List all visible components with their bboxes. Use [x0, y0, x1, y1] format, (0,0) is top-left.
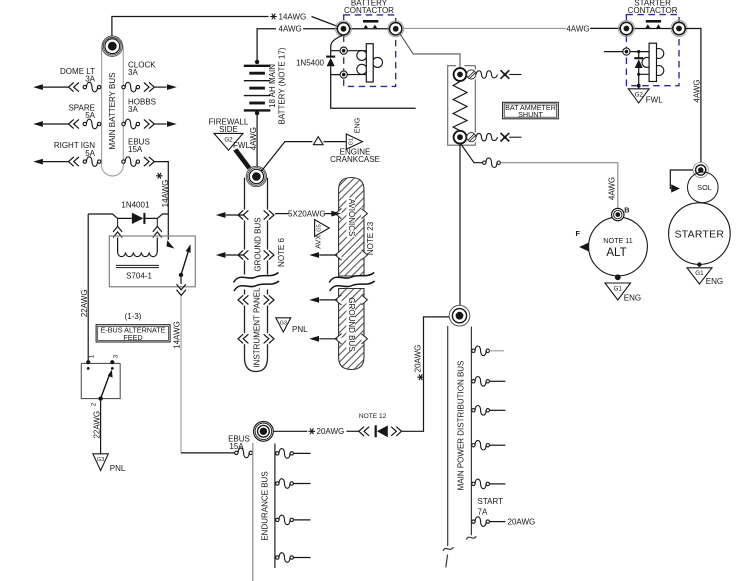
svg-text:NOTE 23: NOTE 23	[366, 221, 375, 255]
E-BUS ALTERNATE FEED label box	[96, 325, 170, 342]
SOL circle	[688, 172, 719, 203]
wire 22AWG relay feed down to switch	[87, 214, 89, 361]
svg-text:G3: G3	[280, 320, 287, 326]
wire contactor to shunt	[399, 32, 460, 68]
BAT AMMETER SHUNT label box	[503, 102, 559, 119]
wire diode to main power bus	[402, 317, 450, 431]
fuse EBUS 15A (alternate feed)	[235, 448, 253, 458]
relay box S704-1	[109, 236, 195, 287]
coil terminals on box edge	[340, 47, 366, 78]
wire 4AWG contactor to starter contactor	[402, 27, 566, 29]
shunt top screw	[467, 70, 476, 79]
svg-text:3A: 3A	[128, 105, 138, 114]
wire shunt to alternator B lead with fuse	[461, 145, 618, 209]
fuse DOME LT 3A	[33, 67, 101, 92]
wire from switch feed to relay coil	[88, 214, 168, 218]
svg-text:PNL: PNL	[110, 464, 126, 473]
svg-text:22AWG: 22AWG	[93, 411, 102, 439]
switch terminals	[86, 360, 90, 364]
switch body	[81, 363, 120, 398]
ground symbol G2 FWL under starter contactor	[628, 89, 649, 103]
avionics bus upper (hatched)	[339, 178, 364, 277]
shunt sense leads bottom	[476, 133, 522, 142]
main power bus top terminal	[449, 305, 470, 326]
svg-text:S704-1: S704-1	[126, 272, 152, 281]
svg-text:(1-3): (1-3)	[125, 312, 142, 321]
svg-text:4AWG: 4AWG	[566, 24, 589, 33]
endurance bus fuses right	[276, 449, 311, 563]
svg-text:3A: 3A	[85, 74, 95, 83]
svg-text:2: 2	[91, 402, 98, 406]
wire shunt to main power distribution bus	[459, 144, 461, 306]
main power bus fuses right	[472, 346, 506, 526]
svg-text:1N5400: 1N5400	[296, 58, 325, 67]
starter contactor dashed box	[626, 15, 679, 86]
ground symbol G5 AVX (avionics)	[315, 220, 330, 237]
wire between contactor terminals	[349, 28, 390, 30]
battery contactor left terminal	[336, 21, 352, 37]
battery 18AH (plates)	[244, 60, 271, 116]
battery contactor coil	[357, 44, 383, 82]
svg-text:GROUND BUS: GROUND BUS	[254, 217, 263, 271]
endurance bus top terminal	[254, 421, 274, 441]
svg-text:4AWG: 4AWG	[249, 127, 258, 150]
wire between terminals	[632, 28, 673, 30]
battery contactor dashed box	[344, 15, 396, 87]
coil small terminal + stub wire	[604, 48, 649, 55]
svg-text:FWL: FWL	[646, 96, 663, 105]
starter contactor left terminal	[618, 21, 634, 37]
main battery bus top terminal	[102, 36, 122, 56]
fuse SPARE 5A	[33, 104, 101, 129]
wire starter contactor to SOL	[686, 29, 701, 163]
ground symbol G2 firewall side	[209, 117, 253, 171]
ground bus body lower (instrument panel)	[245, 290, 268, 372]
fuse HOBBS 3A	[122, 98, 177, 129]
ground bus body upper	[245, 166, 268, 372]
svg-text:G2: G2	[635, 91, 644, 98]
svg-text:3A: 3A	[128, 68, 138, 77]
ground symbol G3 PNL below switch	[93, 454, 108, 471]
svg-text:STARTER: STARTER	[675, 230, 725, 241]
starter ground dot	[697, 262, 701, 266]
svg-text:PNL: PNL	[292, 325, 308, 334]
svg-text:MAIN POWER DISTRIBUTION BUS: MAIN POWER DISTRIBUTION BUS	[456, 361, 465, 491]
svg-text:FWL: FWL	[233, 141, 250, 150]
diode (NOTE 12)	[375, 425, 377, 437]
svg-text:ENG: ENG	[624, 293, 641, 302]
wire EBUS feed down to S704 relay contact	[154, 162, 168, 240]
svg-text:NOTE 12: NOTE 12	[359, 413, 387, 420]
svg-text:15A: 15A	[128, 145, 143, 154]
relay output faston (down chevrons)	[177, 277, 186, 295]
svg-text:14AWG: 14AWG	[173, 321, 182, 349]
svg-text:G1: G1	[614, 285, 623, 292]
fuse RIGHT IGN 5A	[33, 141, 101, 166]
alternator circle	[589, 217, 648, 276]
shunt bottom terminal	[454, 131, 467, 144]
terminal B	[612, 208, 624, 220]
svg-text:20AWG: 20AWG	[317, 427, 345, 436]
main battery bus body	[102, 38, 124, 176]
svg-text:7A: 7A	[478, 507, 488, 516]
svg-text:22AWG: 22AWG	[80, 289, 89, 317]
svg-text:FEED: FEED	[123, 333, 142, 342]
svg-text:G1: G1	[349, 138, 355, 145]
contact bar	[646, 20, 661, 23]
svg-text:20AWG: 20AWG	[414, 345, 423, 373]
main power bus body	[443, 326, 476, 568]
svg-text:NOTE 6: NOTE 6	[277, 238, 286, 267]
fuse CLOCK 3A	[122, 60, 177, 91]
svg-text:ENG: ENG	[353, 117, 362, 133]
diode in starter contactor	[634, 50, 649, 89]
diode 1N4001	[143, 213, 145, 224]
svg-text:1: 1	[89, 354, 96, 358]
inline connector triangle	[313, 137, 323, 145]
svg-text:4AWG: 4AWG	[279, 25, 302, 34]
wire 22AWG switch to panel ground	[100, 401, 102, 454]
wire battery to ground bus	[256, 113, 258, 166]
svg-text:NOTE 11: NOTE 11	[603, 236, 632, 245]
ground symbol G1 ENG under starter	[687, 268, 712, 284]
svg-text:15A: 15A	[229, 442, 244, 451]
wire endurance bus to diode	[274, 430, 308, 432]
svg-text:G3: G3	[97, 457, 104, 463]
svg-text:5A: 5A	[85, 111, 95, 120]
svg-text:ENG: ENG	[706, 277, 723, 286]
svg-text:AVIONICS: AVIONICS	[347, 199, 356, 237]
contact bar	[363, 20, 378, 23]
fuse EBUS 15A	[122, 137, 155, 166]
avionics bus notches (white wedges + chevrons)	[334, 207, 370, 220]
svg-text:MAIN BATTERY BUS: MAIN BATTERY BUS	[108, 73, 117, 150]
svg-text:F: F	[576, 229, 581, 238]
wire alternate feed to endurance bus	[181, 452, 235, 454]
battery contactor right terminal	[388, 21, 404, 37]
switch lever	[101, 374, 110, 399]
ground bus left arrows	[216, 210, 274, 219]
svg-text:14AWG: 14AWG	[161, 180, 170, 208]
wire 4AWG battery to contactor	[257, 29, 338, 61]
avionics bus vertical labels	[346, 198, 355, 238]
svg-text:18 AH MAIN: 18 AH MAIN	[268, 64, 277, 108]
shunt top terminal	[454, 68, 467, 81]
svg-text:3: 3	[113, 354, 120, 358]
avionics left arrows	[309, 252, 337, 258]
svg-text:B: B	[624, 205, 629, 214]
svg-text:SOL: SOL	[697, 183, 711, 192]
solenoid feed arrow	[670, 170, 693, 189]
starter contactor coil	[642, 43, 664, 81]
wire relay to endurance bus (14AWG)	[180, 296, 182, 453]
starter motor circle	[669, 203, 731, 265]
svg-text:ENDURANCE BUS: ENDURANCE BUS	[260, 471, 269, 540]
svg-text:1N4001: 1N4001	[121, 201, 150, 210]
wire ground bus to engine crankcase	[261, 142, 346, 172]
svg-text:G2: G2	[224, 137, 233, 144]
solenoid terminal	[693, 162, 708, 177]
wire 5X20AWG ground bus to avionics	[275, 210, 341, 219]
ground symbol G3 PNL (panel)	[276, 318, 291, 332]
alternator ground dot	[615, 274, 621, 280]
svg-text:GROUND BUS: GROUND BUS	[347, 297, 356, 351]
relay switch lever	[181, 249, 189, 275]
svg-text:5X20AWG: 5X20AWG	[288, 210, 326, 219]
svg-text:G1: G1	[695, 270, 704, 277]
svg-text:4AWG: 4AWG	[608, 177, 617, 200]
endurance bus body	[253, 443, 275, 581]
break squiggle on ground bus	[234, 273, 280, 292]
shunt sense leads top	[476, 70, 522, 79]
break squiggle on avionics bus	[329, 273, 375, 292]
diode 1N5400	[296, 35, 343, 75]
svg-text:5A: 5A	[85, 149, 95, 158]
svg-text:INSTRUMENT PANEL: INSTRUMENT PANEL	[252, 287, 261, 368]
svg-text:START: START	[478, 497, 504, 506]
svg-text:CONTACTOR: CONTACTOR	[344, 6, 394, 15]
coil faston connectors (chevrons)	[113, 219, 162, 253]
shunt bracket	[448, 66, 476, 146]
instrument panel notches	[238, 295, 248, 304]
svg-text:BATTERY (NOTE 17): BATTERY (NOTE 17)	[278, 47, 287, 124]
svg-text:4AWG: 4AWG	[693, 79, 702, 102]
relay coil	[118, 253, 157, 257]
svg-text:20AWG: 20AWG	[508, 518, 536, 527]
ground symbol G1 ENG under alternator	[605, 283, 631, 300]
wire battery contactor coil to firewall run	[331, 75, 416, 109]
avionics bus lower (hatched)	[339, 289, 364, 370]
svg-text:SHUNT: SHUNT	[518, 110, 543, 119]
svg-text:SIDE: SIDE	[219, 125, 238, 134]
wire bus top to battery contactor (14AWG)	[112, 17, 343, 37]
svg-text:CONTACTOR: CONTACTOR	[628, 6, 678, 15]
svg-text:G5: G5	[317, 224, 323, 231]
ground symbol G1 ENG (engine crankcase)	[346, 134, 362, 149]
svg-text:CRANKCASE: CRANKCASE	[330, 155, 380, 164]
svg-text:14AWG: 14AWG	[279, 12, 307, 21]
svg-text:AVX: AVX	[313, 235, 322, 249]
starter contactor right terminal	[671, 21, 687, 37]
ground bus top terminal	[246, 166, 266, 186]
shunt bottom screw	[467, 133, 476, 142]
svg-text:ALT: ALT	[606, 247, 626, 259]
shunt resistor zigzag	[453, 82, 467, 131]
